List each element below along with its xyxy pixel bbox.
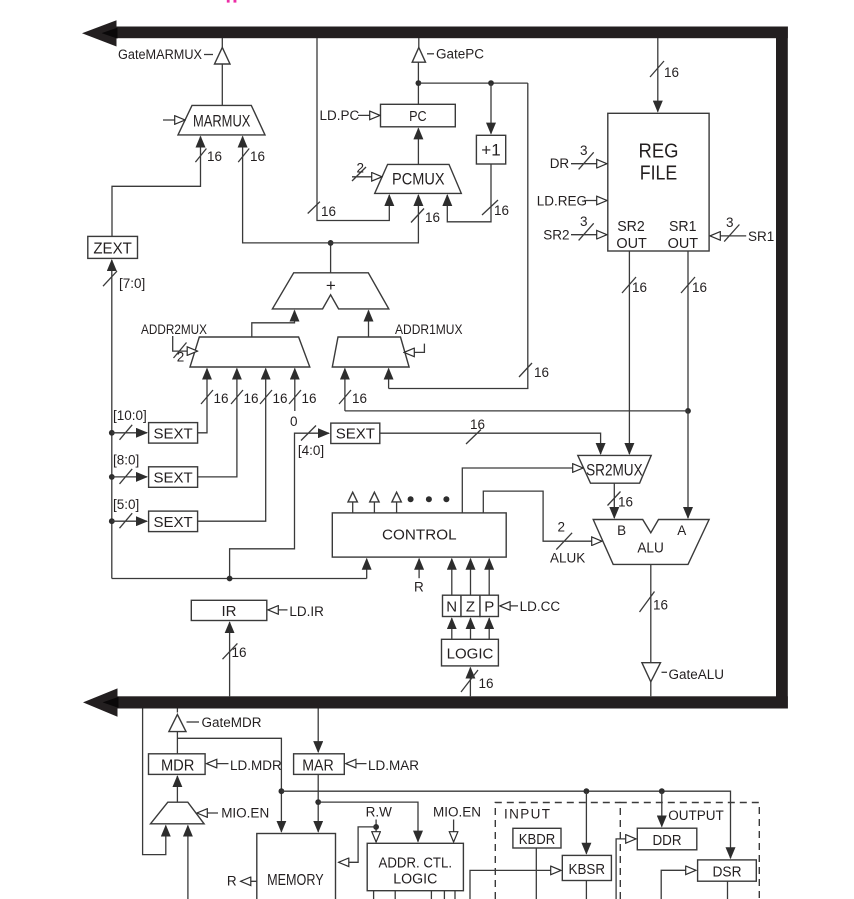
svg-text:PC: PC: [409, 108, 427, 125]
svg-text:16: 16: [273, 391, 288, 406]
width slash 16 on MARMUX left input: [195, 149, 222, 165]
decorative magenta text remnant: [227, 0, 237, 3]
node SR1 junction: [685, 408, 691, 414]
memory MEMORY: [257, 834, 336, 899]
ADDR2MUX select stub with slash and 2: [173, 336, 198, 365]
svg-text:P: P: [484, 599, 494, 616]
wire DSR load input: [661, 870, 696, 899]
node MDR data junction: [279, 788, 285, 794]
node junction on trunk at SEXT1: [109, 430, 115, 436]
svg-text:SR1: SR1: [748, 229, 774, 244]
svg-text:A: A: [677, 523, 686, 538]
svg-text:16: 16: [534, 365, 549, 380]
wire IR out trunk horizontal: [112, 578, 367, 580]
svg-text:IR: IR: [222, 603, 237, 620]
wire LOGIC to P: [488, 618, 490, 639]
wire mux output to MDR: [176, 776, 178, 802]
wire MAR to ADDR CTL LOGIC: [318, 802, 418, 842]
svg-text:PCMUX: PCMUX: [392, 170, 445, 189]
wire +1 output to PCMUX right input with slash: [447, 164, 509, 222]
wire ALU output to GateALU with slash 16: [640, 564, 669, 662]
wire SR2MUX output to ALU input B with slash 16: [608, 483, 634, 518]
label LD.IR with open arrow: [268, 604, 324, 619]
wire branch to KBSR: [585, 791, 587, 854]
PCMUX select stub with slash and 2: [352, 161, 382, 182]
wire Z to CONTROL: [470, 559, 472, 595]
register IR: [191, 600, 266, 620]
wire SEXT1 output to ADDR2MUX: [198, 369, 207, 433]
node junction on trunk at SEXT3: [109, 518, 115, 524]
svg-text:FILE: FILE: [640, 163, 678, 185]
wire bus to REG FILE with slash 16: [650, 38, 679, 112]
wire junction to PCMUX middle input with slash: [331, 195, 440, 243]
wire bus to MAR: [317, 709, 319, 753]
svg-text:DDR: DDR: [653, 832, 682, 849]
svg-text:KBSR: KBSR: [569, 861, 606, 878]
register MAR: [294, 754, 345, 775]
wire SEXT3 output to ADDR2MUX: [198, 369, 266, 522]
ADDR CTL output stub 5: [454, 891, 456, 899]
node adder output junction: [328, 240, 334, 246]
wire LOGIC to Z: [470, 618, 472, 639]
wire ADDR2MUX output to adder: [252, 311, 295, 338]
svg-text:[8:0]: [8:0]: [113, 453, 139, 468]
wire PC output junction horizontal: [418, 82, 527, 84]
wire N to CONTROL: [451, 559, 453, 595]
wire SR1 OUT down with slash 16: [681, 251, 707, 411]
width slash [7:0]: [103, 271, 145, 291]
svg-text:SEXT: SEXT: [154, 470, 193, 487]
label LD.MAR with open arrow: [346, 758, 420, 773]
control unit CONTROL: [332, 513, 506, 557]
label R memory ready with open arrow: [227, 874, 257, 889]
mux ADDR1MUX: [332, 337, 409, 367]
svg-text:+: +: [326, 276, 336, 295]
svg-text:16: 16: [470, 417, 485, 432]
svg-text:LOGIC: LOGIC: [393, 871, 437, 888]
node +1 input junction: [488, 80, 494, 86]
control output stub 3: [392, 492, 401, 513]
svg-text:2: 2: [558, 520, 566, 535]
svg-text:GateMDR: GateMDR: [202, 715, 262, 730]
wire KBDR output down: [535, 848, 537, 899]
wire SR1 junction to ALU input A: [687, 411, 689, 518]
label MIO.EN with open arrow: [197, 805, 269, 820]
label GatePC: [427, 47, 484, 62]
wire GateALU to bus: [650, 682, 652, 697]
svg-text:OUT: OUT: [616, 235, 647, 252]
svg-text:SR1: SR1: [669, 218, 697, 235]
bus bottom bar: [117, 696, 788, 708]
wire LOGIC to N: [451, 618, 453, 639]
width slash 16 on PC down line: [519, 363, 549, 380]
wire SR1 junction to ADDR1MUX horizontal: [345, 410, 688, 412]
flag register P: [480, 595, 498, 616]
wire constant 0 input to ADDR2MUX: [294, 369, 296, 411]
mux MIO.EN input mux: [151, 802, 205, 824]
register SEXT3: [149, 511, 198, 531]
width slash 16 ADDR2MUX input2: [231, 390, 259, 406]
wire GatePC to bus: [418, 38, 420, 48]
node DDR branch junction: [659, 788, 665, 794]
register ZEXT: [88, 236, 138, 258]
wire branch to DDR: [661, 791, 663, 826]
bus bottom-left arrowhead: [83, 688, 118, 716]
wire R.W to MEMORY write enable: [339, 827, 377, 862]
svg-text:SEXT: SEXT: [154, 425, 193, 442]
svg-text:MDR: MDR: [161, 758, 195, 775]
label GateMARMUX: [118, 47, 213, 62]
wire ZEXT to MARMUX left input: [112, 137, 201, 237]
svg-text:16: 16: [302, 391, 317, 406]
svg-text:16: 16: [207, 149, 222, 164]
svg-text:GateMARMUX: GateMARMUX: [118, 47, 202, 62]
wire ADDR1MUX output to adder: [368, 311, 370, 338]
mux ADDR2MUX: [190, 337, 310, 367]
register MDR: [149, 754, 206, 775]
wire CONTROL to SR2MUX select: [462, 468, 583, 513]
wire P to CONTROL: [488, 559, 490, 595]
wire IR[7:0] vertical trunk to ZEXT: [111, 260, 113, 579]
wire bus to IR with slash 16: [223, 622, 247, 696]
mux MARMUX: [178, 105, 265, 134]
gate GatePC triangle: [412, 48, 425, 63]
register KBDR: [513, 828, 561, 848]
mux SR2MUX: [578, 455, 651, 483]
width slash 16 ADDR2MUX input3: [260, 390, 288, 406]
svg-text:MIO.EN: MIO.EN: [433, 805, 481, 820]
register DDR: [637, 828, 697, 850]
wire KBSR output down: [585, 881, 587, 899]
width slash 16 ADDR2MUX input1: [201, 390, 229, 406]
wire to KBSR load: [470, 870, 561, 899]
bus top-left arrowhead: [82, 20, 117, 46]
svg-text:3: 3: [580, 214, 588, 229]
wire MDR to MEMORY data: [177, 738, 281, 832]
svg-text:16: 16: [618, 495, 633, 510]
width slash 16 ADDR2MUX input4: [289, 390, 317, 406]
label SR2 with slash 3: [543, 214, 607, 243]
svg-text:Z: Z: [466, 599, 475, 616]
wire IR to SEXT4 path: [230, 433, 329, 578]
wire bus to mux left input: [143, 709, 166, 855]
ADDR CTL output stub 4: [443, 891, 445, 899]
wire trunk to CONTROL: [366, 559, 368, 579]
register SEXT4: [331, 423, 380, 443]
svg-text:MIO.EN: MIO.EN: [221, 805, 269, 820]
svg-text:ALU: ALU: [637, 540, 664, 557]
wire PC down line horizontal: [389, 83, 528, 388]
svg-text:R: R: [414, 580, 424, 595]
svg-text:GateALU: GateALU: [669, 667, 725, 682]
svg-text:[4:0]: [4:0]: [298, 443, 324, 458]
flag register N: [443, 595, 462, 616]
svg-text:MEMORY: MEMORY: [267, 872, 324, 889]
width slash 2 label ALUK: [550, 520, 585, 566]
svg-text:MAR: MAR: [302, 758, 334, 775]
svg-text:ADDR2MUX: ADDR2MUX: [141, 322, 207, 337]
bus top bar: [114, 27, 788, 39]
block +1 incrementer: [476, 135, 505, 164]
logic ADDR CTL LOGIC: [367, 843, 463, 890]
flag register Z: [461, 595, 480, 616]
control output stub 2: [370, 492, 379, 513]
adder PLUS: [272, 273, 388, 309]
svg-text:OUTPUT: OUTPUT: [668, 808, 724, 823]
svg-text:[5:0]: [5:0]: [113, 497, 139, 512]
label LD.MDR with open arrow: [207, 758, 283, 773]
svg-text:+1: +1: [481, 141, 500, 160]
wire DDR load input: [616, 839, 636, 899]
bus bottom arrow inner notch: [103, 697, 119, 708]
control output stub 1: [348, 492, 357, 513]
svg-text:REG: REG: [639, 141, 679, 163]
svg-text:3: 3: [580, 143, 588, 158]
svg-text:ALUK: ALUK: [550, 551, 585, 566]
svg-text:KBDR: KBDR: [519, 831, 556, 848]
svg-text:B: B: [617, 523, 626, 538]
label GateALU: [662, 667, 725, 682]
wire GateMDR to MDR: [176, 732, 178, 754]
ellipsis dots: [408, 496, 450, 502]
node R.W junction: [373, 824, 379, 830]
node MAR junction: [315, 799, 321, 805]
wire bus to PCMUX left input with slash: [308, 38, 390, 221]
register KBSR: [562, 855, 611, 880]
svg-text:R.W: R.W: [366, 805, 393, 820]
svg-text:GatePC: GatePC: [436, 47, 484, 62]
wire tap to SEXT1 with slash: [112, 425, 147, 440]
mux PCMUX: [375, 164, 462, 193]
svg-text:[10:0]: [10:0]: [113, 408, 147, 423]
wire SR2 OUT to SR2MUX with slash 16: [622, 251, 647, 454]
label LD.PC with open arrow: [320, 108, 381, 123]
svg-text:2: 2: [177, 350, 185, 365]
register DSR: [698, 860, 757, 881]
node junction on trunk at SEXT2: [109, 474, 115, 480]
register file REG FILE: [608, 113, 709, 252]
svg-text:16: 16: [494, 203, 509, 218]
svg-text:16: 16: [632, 280, 647, 295]
wire SEXT4 output to SR2MUX with slash 16: [380, 417, 601, 454]
svg-text:16: 16: [479, 676, 494, 691]
label SR1 with slash 3 and open arrow: [710, 215, 774, 244]
wire adder output to junction: [330, 243, 332, 273]
wire DSR output down: [727, 881, 729, 899]
ADDR CTL output stub 2: [394, 891, 396, 899]
svg-text:LD.CC: LD.CC: [520, 599, 561, 614]
label LD.REG with open arrow: [537, 194, 607, 209]
wire PC output up: [417, 62, 419, 104]
svg-text:16: 16: [232, 645, 247, 660]
svg-text:INPUT: INPUT: [504, 807, 550, 822]
svg-text:0: 0: [290, 414, 298, 429]
ADDR1MUX select stub: [404, 344, 424, 353]
node KBSR branch junction: [584, 788, 590, 794]
label GateMDR: [187, 715, 262, 730]
bus right bar: [776, 27, 788, 709]
width slash 16 on MARMUX right input: [238, 149, 265, 165]
svg-text:CONTROL: CONTROL: [382, 527, 457, 544]
wire R.W to ADDR CTL LOGIC: [375, 820, 377, 843]
svg-text:LD.IR: LD.IR: [289, 604, 324, 619]
gate GateMDR triangle: [169, 709, 186, 732]
svg-text:16: 16: [321, 204, 336, 219]
register PC: [381, 104, 456, 127]
svg-text:ZEXT: ZEXT: [93, 241, 132, 258]
wire ADDR1MUX left input from SR1 line with slash: [339, 369, 367, 411]
svg-text:LD.REG: LD.REG: [537, 194, 587, 209]
wire ALUK from CONTROL to ALU: [483, 491, 602, 541]
svg-text:SR2MUX: SR2MUX: [586, 461, 643, 480]
wire R input stub to CONTROL: [414, 559, 424, 595]
wire INMUX to mux right input: [187, 826, 189, 899]
svg-text:[7:0]: [7:0]: [119, 276, 145, 291]
wire MIO.EN to ADDR CTL LOGIC: [453, 820, 455, 843]
svg-text:16: 16: [214, 391, 229, 406]
width slash on SEXT4 input: [301, 426, 316, 441]
register SEXT1: [149, 423, 198, 444]
ADDR CTL output stub 1: [373, 891, 375, 899]
svg-text:16: 16: [244, 391, 259, 406]
gate GateMARMUX triangle: [215, 47, 231, 64]
wire GateMARMUX to MARMUX: [221, 64, 223, 105]
node PC output junction: [416, 80, 422, 86]
node IR output junction: [227, 576, 233, 582]
svg-text:ADDR1MUX: ADDR1MUX: [395, 322, 463, 337]
svg-text:2: 2: [357, 161, 365, 176]
svg-text:DR: DR: [550, 156, 570, 171]
logic block LOGIC: [442, 639, 499, 666]
wire bus to LOGIC with slash 16: [461, 668, 494, 697]
wire SEXT2 output to ADDR2MUX: [198, 369, 237, 477]
wire PCMUX output to PC: [417, 128, 419, 164]
wire MAR to MEMORY: [317, 774, 319, 831]
svg-text:16: 16: [250, 149, 265, 164]
svg-text:SR2: SR2: [617, 218, 645, 235]
svg-text:SR2: SR2: [543, 228, 569, 243]
svg-text:LD.MDR: LD.MDR: [230, 758, 282, 773]
svg-text:LOGIC: LOGIC: [447, 646, 494, 663]
wire tap to SEXT3 with slash: [112, 513, 147, 528]
svg-text:OUT: OUT: [668, 235, 699, 252]
dashed INPUT box: [495, 803, 620, 899]
svg-text:16: 16: [664, 65, 679, 80]
wire MDR data to IO horizontal: [281, 791, 730, 858]
svg-text:SEXT: SEXT: [154, 514, 193, 531]
svg-text:N: N: [446, 599, 457, 616]
svg-text:LD.MAR: LD.MAR: [368, 758, 419, 773]
wire ADDR1MUX right input from PC: [388, 369, 390, 389]
svg-text:16: 16: [692, 280, 707, 295]
svg-text:MARMUX: MARMUX: [193, 112, 251, 131]
gate GateALU triangle: [642, 663, 661, 682]
svg-text:16: 16: [653, 598, 668, 613]
svg-text:SEXT: SEXT: [336, 426, 375, 443]
wire junction to MARMUX right input: [243, 137, 331, 243]
svg-text:16: 16: [425, 210, 440, 225]
svg-text:LD.PC: LD.PC: [320, 108, 360, 123]
svg-text:3: 3: [726, 215, 734, 230]
dashed OUTPUT box: [620, 803, 759, 899]
label DR with slash 3: [550, 143, 607, 171]
label LD.CC with open arrow: [500, 599, 561, 614]
wire tap to SEXT2 with slash: [112, 469, 147, 484]
wire junction to +1: [490, 83, 492, 134]
svg-text:ADDR. CTL.: ADDR. CTL.: [379, 855, 453, 872]
svg-text:R: R: [227, 874, 237, 889]
alu ALU: [593, 520, 709, 565]
svg-text:16: 16: [352, 391, 367, 406]
ADDR CTL output stub 3: [430, 891, 432, 899]
register SEXT2: [149, 467, 198, 488]
svg-text:DSR: DSR: [713, 863, 742, 880]
gate GateMARMUX wire to bus: [221, 38, 223, 48]
bus top arrow inner notch: [102, 28, 118, 39]
MARMUX select stub: [163, 119, 185, 121]
